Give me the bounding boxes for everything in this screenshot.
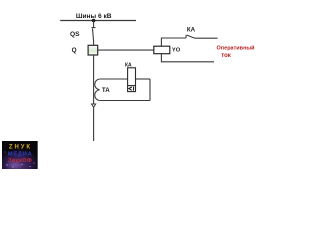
relay KA pickup symbol: [129, 87, 134, 91]
svg-text:ток: ток: [221, 53, 231, 59]
bus 6 kV: [60, 20, 136, 22]
svg-text:QS: QS: [70, 31, 80, 38]
svg-text:Оперативный: Оперативный: [217, 45, 255, 52]
wire: Q down through TA to arrow: [93, 55, 95, 104]
wire: YO branch to bottom rail: [161, 54, 214, 62]
wire: loop top right: [136, 78, 151, 80]
wire: QS to Q: [93, 41, 95, 45]
circuit breaker Q: [88, 45, 98, 55]
contact KA (normally open): [186, 35, 195, 39]
svg-text:КА: КА: [187, 27, 196, 34]
svg-text:Q: Q: [72, 47, 77, 54]
current transformer TA (secondary arcs): [95, 79, 100, 101]
wire: loop bottom: [100, 100, 150, 102]
node: bus junction: [92, 19, 96, 23]
wire: feeder below arrow: [93, 108, 95, 141]
wire: bus to QS: [93, 21, 95, 28]
wire: top rail right: [195, 37, 218, 39]
svg-text:Шины 6 кВ: Шины 6 кВ: [76, 13, 112, 20]
wire: YO branch to top rail: [161, 38, 186, 46]
disconnector QS: [91, 28, 95, 42]
svg-text:ZНУК: ZНУК: [9, 145, 32, 151]
direction arrow: [92, 104, 96, 107]
svg-text:ТА: ТА: [102, 87, 110, 94]
overcurrent relay KA: [128, 68, 136, 92]
svg-text:МЕДИА: МЕДИА: [8, 151, 33, 157]
svg-text:YO: YO: [172, 48, 181, 54]
logo watermark: [2, 141, 38, 170]
svg-text:КА: КА: [125, 63, 132, 69]
wire: Q to trip coil YO: [98, 49, 154, 51]
wire: CT loop top: [100, 78, 128, 80]
trip coil YO: [154, 46, 170, 54]
wire: loop right side: [149, 79, 151, 101]
svg-text:ЗвукОФ: ЗвукОФ: [8, 158, 32, 164]
label: operational current: [217, 45, 255, 60]
